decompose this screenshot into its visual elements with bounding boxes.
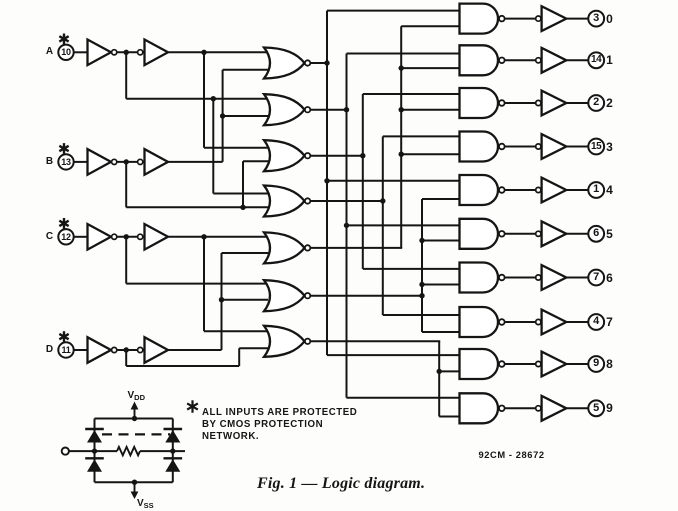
node G5 to NAND row 2 — [399, 107, 404, 112]
dashed gate-oxide line — [102, 433, 170, 435]
wire A inverter stage link — [117, 51, 144, 53]
wire G2 to NAND row 5 — [347, 224, 462, 226]
wire G3 to NAND row 2 — [363, 93, 462, 95]
inverter B1 — [88, 149, 117, 175]
wire D-complement horizontal run — [126, 365, 239, 367]
wire network top rail — [95, 418, 173, 420]
node G6 bus source junction — [419, 293, 424, 298]
wire buffer row 9 output to pin — [566, 407, 588, 409]
wire G6 to NAND row 7 — [422, 331, 462, 333]
output decimal label 2 — [570, 97, 650, 109]
input label C — [10, 232, 90, 242]
input terminal C pin 12 circle — [58, 229, 73, 244]
protection diode bottom-right — [164, 458, 183, 472]
inverter C2 — [138, 224, 168, 250]
bus G3 vertical — [362, 94, 364, 269]
wire G2 to NAND row 1 — [347, 53, 462, 55]
wire A true from buffer — [169, 51, 271, 53]
NOR gate G5 NOR C+D — [264, 232, 310, 263]
wire input D to inverter — [74, 349, 88, 351]
output pin number 7 — [556, 272, 636, 283]
wire D-complement riser — [238, 348, 240, 366]
wire G4 to NAND row 3 — [383, 135, 462, 137]
wire A true vertical drop — [203, 52, 205, 147]
node B-complement tap — [124, 159, 129, 164]
wire G7 output — [310, 340, 440, 342]
wire NAND row 0 output to buffer — [505, 18, 536, 20]
wire buffer row 0 output to pin — [566, 18, 588, 20]
wire NAND row 4 output to buffer — [505, 189, 536, 191]
inverter C1 — [88, 224, 117, 250]
NOR gate G6 NOR Cbar+D — [264, 280, 310, 311]
wire NAND row 6 output to buffer — [505, 277, 536, 279]
output pin number 6 — [556, 228, 636, 239]
wire G4 to NAND row 7 — [383, 314, 462, 316]
output pin 7 circle — [588, 270, 604, 286]
output pin number 5 — [556, 403, 636, 414]
wire G5 to NAND row 1 — [401, 67, 461, 69]
wire G6 to NAND row 6 — [422, 284, 462, 286]
NAND gate row 3 — [460, 132, 505, 162]
node G3 bus source junction — [360, 153, 365, 158]
wire network bottom rail — [95, 481, 173, 483]
output decimal label 7 — [570, 316, 650, 328]
node D true to G6 junction — [219, 297, 224, 302]
NAND gate row 5 — [460, 219, 505, 249]
wire G5 output — [310, 247, 402, 249]
inverter A2 — [138, 40, 168, 66]
output decimal label 6 — [570, 272, 650, 284]
wire B-complement branch riser — [242, 161, 244, 207]
wire C inverter stage link — [117, 236, 144, 238]
wire G4 output — [310, 200, 384, 202]
wire A true to NOR G3 top input — [204, 147, 270, 149]
wire D-complement vertical — [125, 350, 127, 366]
output buffer row 9 — [536, 396, 567, 421]
wire A-complement branch vertical — [212, 99, 214, 194]
output pin 6 circle — [588, 226, 604, 242]
wire A-complement to NOR G4 top input — [213, 193, 270, 195]
protected-input asterisk for C — [59, 218, 68, 229]
node G7 to NAND row 8 — [437, 369, 442, 374]
wire G3 to NAND row 6 — [363, 268, 462, 270]
node B true to G2 junction — [220, 113, 225, 118]
node G2 bus source junction — [344, 107, 349, 112]
output pin 14 circle — [588, 52, 604, 68]
wire input A to inverter — [74, 51, 88, 53]
input pin number 10 — [26, 48, 106, 57]
wire buffer row 2 output to pin — [566, 102, 588, 104]
NOR gate G7 NOR C+Dbar — [264, 326, 310, 357]
output buffer row 6 — [536, 265, 567, 290]
NAND gate row 8 — [460, 349, 505, 379]
caption Fig. 1 Logic diagram — [257, 476, 425, 492]
input pin number 12 — [26, 233, 106, 242]
wire B-complement to NOR G4 bottom input — [126, 206, 270, 208]
wire G5 to NAND row 2 — [401, 109, 461, 111]
input pin number 13 — [26, 158, 106, 167]
node C true junction — [201, 234, 206, 239]
protected-input asterisk for A — [59, 34, 68, 45]
wire B inverter stage link — [117, 161, 144, 163]
wire input C to inverter — [74, 236, 88, 238]
wire NAND row 2 output to buffer — [505, 102, 536, 104]
node G1 to NAND row 4 — [324, 178, 329, 183]
inverter D2 — [138, 337, 168, 363]
wire middle row left segment — [95, 450, 118, 452]
wire G6 output — [310, 295, 423, 297]
node G2 to NAND row 5 — [344, 223, 349, 228]
NAND gate row 9 — [460, 393, 505, 423]
inverter A1 — [88, 40, 117, 66]
wire D true to NOR G6 bottom input — [222, 299, 269, 301]
wire G5 to NAND row 0 — [401, 25, 461, 27]
input label A — [10, 47, 90, 57]
bus G5 vertical — [400, 26, 402, 248]
wire C true vertical drop — [203, 237, 205, 331]
VDD label — [128, 389, 146, 403]
node G4 bus source junction — [380, 198, 385, 203]
input label B — [10, 157, 90, 167]
wire C-complement to NOR G6 top input — [126, 283, 268, 285]
node network input junction — [92, 448, 97, 453]
output pin number 4 — [556, 316, 636, 327]
wire A-complement vertical — [125, 52, 127, 98]
wire buffer row 5 output to pin — [566, 233, 588, 235]
inverter B2 — [138, 149, 168, 175]
NOR gate G3 NOR A+Bbar — [264, 140, 310, 171]
output buffer row 8 — [536, 352, 567, 377]
input terminal D pin 11 circle — [58, 342, 73, 357]
wire G2 output — [310, 109, 347, 111]
wire G6 to NAND row 4 — [422, 198, 462, 200]
input terminal B pin 13 circle — [58, 154, 73, 169]
output pin number 1 — [556, 184, 636, 195]
wire NAND row 5 output to buffer — [505, 233, 536, 235]
output pin 15 circle — [588, 139, 604, 155]
wire buffer row 7 output to pin — [566, 321, 588, 323]
output decimal label 3 — [570, 141, 650, 153]
output pin 2 circle — [588, 95, 604, 111]
wire NAND row 7 output to buffer — [505, 321, 536, 323]
output decimal label 8 — [570, 358, 650, 370]
wire G7 to NAND row 8 — [439, 370, 461, 372]
wire D true to NOR G5 bottom input — [222, 252, 271, 254]
output pin number 14 — [556, 55, 636, 65]
NOR gate G2 NOR Abar+B — [264, 94, 310, 125]
output buffer row 2 — [536, 91, 567, 116]
node G5 to NAND row 3 — [399, 152, 404, 157]
input pin number 11 — [26, 346, 106, 355]
VDD terminal arrow — [131, 402, 139, 419]
bus G6 vertical — [421, 199, 423, 332]
output buffer row 0 — [536, 6, 567, 31]
wire D true vertical riser — [221, 253, 223, 350]
wire G3 output — [310, 155, 364, 157]
output decimal label 9 — [570, 402, 650, 414]
wire B true to NOR G2 bottom input — [223, 115, 270, 117]
bus G7 vertical — [438, 341, 440, 416]
output pin number 9 — [556, 358, 636, 369]
output buffer row 7 — [536, 310, 567, 335]
protection diode top-left — [85, 429, 104, 443]
wire input terminal to network — [70, 450, 95, 452]
protected-input asterisk for B — [59, 143, 68, 154]
wire G2 to NAND row 9 — [347, 397, 462, 399]
protection network input terminal — [62, 448, 69, 455]
output buffer row 1 — [536, 48, 567, 73]
wire buffer row 4 output to pin — [566, 189, 588, 191]
node G1 bus source junction — [324, 60, 329, 65]
node C-complement tap — [124, 234, 129, 239]
wire buffer row 3 output to pin — [566, 146, 588, 148]
wire NAND row 9 output to buffer — [505, 407, 536, 409]
NOR gate G4 NOR Abar+Bbar — [264, 186, 310, 217]
wire buffer row 6 output to pin — [566, 277, 588, 279]
wire G1 output — [310, 62, 328, 64]
NAND gate row 4 — [460, 175, 505, 205]
wire A-complement to NOR G2 top input — [126, 98, 270, 100]
output buffer row 4 — [536, 178, 567, 203]
wire D true from buffer — [169, 349, 222, 351]
wire buffer row 1 output to pin — [566, 59, 588, 61]
output pin number 3 — [556, 13, 636, 24]
drawing number 92CM-28672 — [479, 451, 545, 460]
wire NAND row 3 output to buffer — [505, 146, 536, 148]
node G6 to NAND row 5 — [419, 238, 424, 243]
wire B true to NOR G1 bottom input — [223, 69, 270, 71]
output pin number 2 — [556, 97, 636, 108]
NAND gate row 0 — [460, 4, 505, 34]
wire G1 to NAND row 4 — [327, 180, 462, 182]
protection diode bottom-left — [85, 458, 104, 472]
bus G1 vertical — [326, 11, 328, 356]
VSS label — [137, 497, 154, 511]
wire network left rail — [94, 419, 96, 483]
wire G1 to NAND row 0 — [327, 10, 462, 12]
node A-complement branch — [211, 96, 216, 101]
note asterisk — [187, 400, 198, 412]
wire input B to inverter — [74, 161, 88, 163]
output decimal label 4 — [570, 184, 650, 196]
input terminal A pin 10 circle — [58, 45, 73, 60]
output decimal label 5 — [570, 228, 650, 240]
wire buffer row 8 output to pin — [566, 363, 588, 365]
VSS terminal arrow — [131, 482, 139, 499]
output pin number 15 — [556, 142, 636, 152]
NAND gate row 1 — [460, 45, 505, 75]
wire G1 to NAND row 8 — [327, 354, 462, 356]
output pin 3 circle — [588, 11, 604, 27]
note text all inputs protected — [202, 407, 357, 442]
NAND gate row 7 — [460, 307, 505, 337]
input label D — [10, 345, 90, 355]
bus G4 vertical — [382, 136, 384, 315]
output pin 4 circle — [588, 314, 604, 330]
node B-complement branch — [240, 205, 245, 210]
output pin 9 circle — [588, 356, 604, 372]
protection diode top-right — [164, 429, 183, 443]
wire B true from buffer — [169, 161, 223, 163]
wire network right rail — [172, 419, 174, 483]
wire NAND row 8 output to buffer — [505, 363, 536, 365]
node resistor to right rail junction — [170, 448, 175, 453]
wire D-complement to NOR G7 bottom input — [239, 347, 270, 349]
wire middle row right segment — [140, 450, 185, 452]
wire NAND row 1 output to buffer — [505, 59, 536, 61]
node G5 to NAND row 1 — [399, 65, 404, 70]
NAND gate row 6 — [460, 263, 505, 293]
wire B-complement to NOR G3 bottom input — [243, 160, 270, 162]
protected-input asterisk for D — [59, 331, 68, 342]
wire B true vertical riser — [222, 70, 224, 162]
wire G5 to NAND row 3 — [401, 153, 461, 155]
NAND gate row 2 — [460, 88, 505, 118]
NOR gate G1 NOR A+B — [264, 48, 310, 79]
wire C-complement vertical — [125, 237, 127, 284]
node G6 to NAND row 6 — [419, 282, 424, 287]
node VDD rail junction — [132, 416, 137, 421]
output buffer row 3 — [536, 134, 567, 159]
wire C true from buffer — [169, 236, 271, 238]
output buffer row 5 — [536, 221, 567, 246]
inverter D1 — [88, 337, 117, 363]
node A true junction — [201, 50, 206, 55]
node A-complement tap — [124, 50, 129, 55]
wire B-complement vertical — [125, 162, 127, 207]
wire D inverter stage link — [117, 349, 144, 351]
output pin 1 circle — [588, 182, 604, 198]
wire G7 to NAND row 9 — [439, 416, 461, 418]
wire G6 to NAND row 5 — [422, 240, 462, 242]
output pin 5 circle — [588, 400, 604, 416]
wire C true to NOR G7 top input — [204, 330, 270, 332]
bus G2 vertical — [346, 54, 348, 398]
output decimal label 1 — [570, 54, 650, 66]
node VSS rail junction — [132, 480, 137, 485]
resistor R protection series — [117, 447, 140, 455]
output decimal label 0 — [570, 13, 650, 25]
node D-complement tap — [124, 347, 129, 352]
